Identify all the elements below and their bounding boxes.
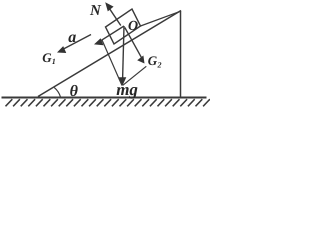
svg-text:a: a — [68, 29, 76, 46]
svg-text:G: G — [42, 50, 52, 65]
mg arrow — [119, 26, 127, 86]
N arrow — [105, 2, 121, 25]
ground — [2, 96, 207, 98]
block — [106, 9, 141, 44]
a arrow — [57, 35, 91, 54]
angle arc — [54, 88, 60, 97]
svg-text:θ: θ — [70, 83, 79, 100]
helper line G2tip to mg tip — [123, 66, 147, 85]
incline hypotenuse — [38, 11, 181, 97]
svg-text:1: 1 — [52, 57, 56, 66]
G1 arrow — [94, 26, 124, 45]
ground hatching — [6, 99, 210, 106]
incline right edge — [180, 11, 182, 97]
helper line G1tip to mg tip — [102, 40, 122, 86]
G2 arrow — [125, 28, 145, 64]
svg-text:2: 2 — [157, 61, 162, 70]
svg-text:O: O — [128, 19, 138, 34]
svg-text:mg: mg — [116, 80, 138, 99]
svg-text:G: G — [148, 53, 158, 68]
line block corner to apex — [141, 11, 181, 26]
svg-text:N: N — [89, 3, 102, 19]
